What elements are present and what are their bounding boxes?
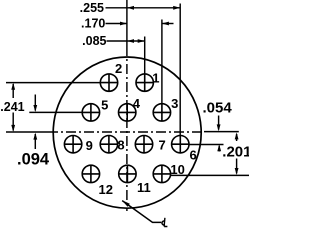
svg-text:1: 1: [152, 70, 159, 85]
leader line to centerline symbol: [122, 201, 161, 223]
centerline symbol (C over L): [162, 218, 167, 227]
arrow .241 up: [11, 83, 15, 90]
extension line pin1 column: [144, 37, 146, 75]
pin 10: [153, 165, 170, 182]
vertical centerline (solid top portion): [126, 0, 128, 46]
pin 7: [135, 136, 152, 153]
dimension line .241 lower: [12, 113, 14, 131]
pin 11: [119, 165, 136, 182]
pins: circle with cross: [64, 74, 189, 183]
svg-text:.094: .094: [17, 151, 50, 169]
dimension texts: [80, 1, 107, 48]
svg-text:.255: .255: [80, 1, 104, 15]
dimension line .094 upper shaft: [34, 95, 36, 111]
arrowheads: [11, 6, 238, 207]
svg-text:2: 2: [115, 61, 122, 76]
arrow .201 up (tip at centerline ext): [235, 132, 239, 139]
svg-text:3: 3: [171, 96, 178, 111]
extension line pin2 left: [6, 82, 101, 84]
vertical centerline (dash-dot): [126, 46, 128, 211]
arrow .255 right: [173, 6, 180, 10]
svg-text:12: 12: [99, 182, 113, 197]
svg-text:.085: .085: [82, 34, 106, 48]
pin 9: [64, 136, 81, 153]
arrow .054 up (tip at pin6 ext): [217, 144, 221, 151]
svg-text:.170: .170: [81, 17, 105, 31]
dimension line .201 upper shaft: [236, 134, 238, 141]
svg-text:9: 9: [86, 138, 93, 153]
pin 8: [100, 136, 117, 153]
svg-text:.201: .201: [222, 144, 249, 161]
svg-text:4: 4: [133, 96, 141, 111]
pin 2: [100, 74, 117, 91]
arrow .094 down (tip at pin5 ext): [33, 105, 37, 112]
dimension line .054 lower shaft: [218, 146, 220, 152]
dimension line .054 upper shaft: [218, 116, 220, 130]
extension line pin3 column: [161, 20, 163, 105]
arrow .170 right (points left, tip at pin3 col): [162, 22, 169, 26]
connector body outline circle: [53, 57, 201, 208]
extension line pin6 right: [189, 144, 224, 146]
dimension line .201 lower shaft: [236, 159, 238, 174]
svg-text:6: 6: [190, 147, 197, 162]
arrow .094 up (tip at centerline): [33, 133, 37, 140]
pin 3: [153, 104, 170, 121]
arrow .085 right: [138, 39, 145, 43]
arrow leader (points up-left at centerline bottom): [122, 200, 130, 206]
arrow .085 left: [127, 39, 134, 43]
horizontal centerline: [6, 131, 48, 133]
arrow .170 left (points right, tip at centerline): [120, 22, 127, 26]
dimension line .170 right part: [162, 23, 174, 25]
dimension line .170 left part: [106, 23, 128, 25]
extension line pin6 column: [179, 4, 181, 136]
pin number labels: [86, 61, 197, 197]
pin 5: [82, 104, 99, 121]
svg-text:10: 10: [170, 162, 184, 177]
pin 6: [172, 136, 189, 153]
extension line pin10 right: [170, 174, 249, 176]
pin 12: [82, 165, 99, 182]
svg-text:5: 5: [101, 97, 108, 112]
pin 4: [119, 104, 136, 121]
dimension line .085: [107, 40, 145, 42]
pin 1: [136, 74, 153, 91]
svg-text:8: 8: [117, 138, 124, 153]
dimension line .094 lower shaft: [34, 134, 36, 149]
dimension line .241 upper: [12, 84, 14, 98]
arrow .255 left: [127, 6, 134, 10]
svg-text:.241: .241: [0, 100, 24, 114]
arrow .054 down (tip at centerline ext): [217, 124, 221, 131]
dimension line .255: [106, 7, 181, 9]
svg-text:7: 7: [159, 138, 166, 153]
arrow .201 down (tip at pin10 ext): [235, 168, 239, 175]
arrow .241 down: [11, 125, 15, 132]
svg-text:.054: .054: [203, 100, 233, 117]
svg-text:11: 11: [137, 180, 151, 195]
extension line pin5 left: [29, 111, 82, 113]
